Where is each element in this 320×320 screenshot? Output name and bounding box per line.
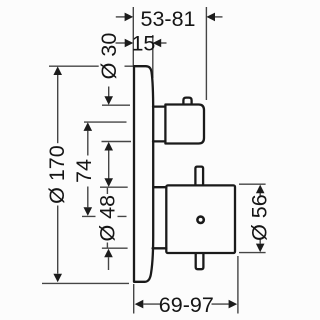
escutcheon plate (side profile)	[134, 66, 153, 282]
dimension line Ø56 upper stub	[259, 193, 261, 196]
dimension line Ø56 lower stub	[259, 240, 261, 244]
box bottom tab	[196, 253, 204, 269]
svg-text:Ø 48: Ø 48	[96, 195, 120, 242]
dimension tail 53-81 right	[214, 16, 222, 18]
dimension line 74 lower segment	[87, 187, 89, 208]
dimension line 74 upper segment	[87, 131, 89, 156]
arrow 74 top (points up)	[84, 122, 93, 131]
extension line box axis (for 74)	[82, 215, 127, 217]
arrow 15 right (points left)	[153, 39, 162, 48]
extension line box bottom right (for Ø56)	[239, 252, 266, 254]
arrow Ø30 bottom (points up)	[104, 142, 113, 151]
handle body	[165, 105, 204, 144]
arrow 74 bottom (points down)	[84, 207, 93, 216]
arrow Ø30 top (points down)	[104, 96, 113, 105]
extension line left (wall plane, top)	[132, 7, 134, 66]
sleeve bottom edge	[153, 247, 167, 249]
extension line sleeve top (for Ø48)	[100, 186, 128, 188]
svg-text:Ø 30: Ø 30	[97, 33, 121, 80]
dimension line Ø170 upper segment	[57, 75, 59, 143]
handle neck	[153, 107, 165, 142]
extension line left of 69-97	[133, 284, 135, 314]
arrow Ø48 top (points down)	[104, 178, 113, 187]
dimension shaft Ø30 top	[108, 87, 110, 97]
dimension line 69-97 right segment	[212, 303, 229, 305]
svg-text:15: 15	[131, 32, 155, 56]
dimension tail 15 left	[116, 42, 126, 44]
svg-text:74: 74	[72, 159, 96, 183]
dimension line stub Ø48 lower	[106, 243, 108, 249]
function box	[166, 185, 235, 253]
extension line right of 53-81	[205, 7, 207, 100]
arrow Ø56 top (points up)	[256, 185, 265, 194]
dimension shaft Ø48 bottom tail	[108, 257, 110, 270]
dimension line 69-97 left segment	[143, 303, 160, 305]
arrow 69-97 right (points right)	[229, 300, 238, 309]
arrow 69-97 left (points left)	[135, 300, 144, 309]
dimension shaft between Ø30 bottom and Ø48 top arrows	[108, 150, 110, 178]
arrow 53-81 right (points left)	[206, 13, 215, 22]
dimension tail 15 right	[161, 42, 167, 44]
arrow 15 left (points right)	[125, 39, 134, 48]
arrow 53-81 left (points right)	[125, 13, 134, 22]
extension line handle top (for Ø30)	[102, 104, 130, 106]
svg-text:Ø 170: Ø 170	[45, 145, 69, 204]
arrow Ø48 bottom (points up)	[104, 249, 113, 258]
extension line right of 15	[152, 35, 154, 78]
extension line handle axis (for 74)	[84, 121, 127, 123]
box top tab	[195, 167, 203, 186]
dimension line Ø170 lower segment	[57, 206, 59, 274]
arrow Ø170 bottom (points down)	[53, 274, 62, 283]
extension line box top right (for Ø56)	[239, 183, 266, 185]
extension line sleeve bottom (for Ø48)	[102, 247, 128, 249]
extension line handle bottom (for Ø30)	[102, 141, 132, 143]
extension line plate bottom (for Ø170)	[42, 282, 129, 284]
sleeve top edge	[153, 186, 166, 188]
svg-text:Ø 56: Ø 56	[247, 194, 271, 241]
svg-text:53-81: 53-81	[141, 7, 196, 31]
extension line right of 69-97	[237, 256, 239, 314]
dimension tail 53-81 left	[116, 16, 125, 18]
box center screw circle	[197, 217, 203, 223]
dimension line stub Ø48 upper	[106, 188, 108, 194]
svg-text:69-97: 69-97	[159, 293, 214, 317]
extension line plate top (for Ø170)	[49, 65, 134, 67]
arrow Ø56 bottom (points down)	[256, 244, 265, 253]
arrow Ø170 top (points up)	[53, 66, 62, 75]
handle top button	[183, 98, 191, 105]
